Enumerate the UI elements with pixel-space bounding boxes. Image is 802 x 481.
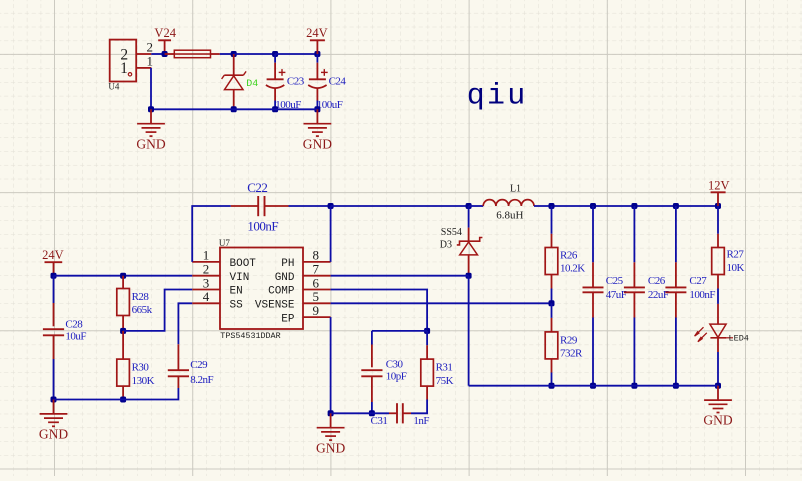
svg-text:C26: C26	[648, 275, 666, 287]
svg-text:1: 1	[120, 60, 128, 77]
capacitor C25	[583, 287, 604, 292]
svg-text:GND: GND	[703, 413, 732, 428]
junction node Vout L1	[549, 203, 555, 209]
value R29 732R	[560, 348, 583, 360]
junction node VSENSE	[549, 300, 555, 306]
label R30	[132, 362, 150, 374]
junction node D3 top	[466, 203, 472, 209]
svg-text:EN: EN	[230, 286, 243, 298]
label C23	[287, 75, 305, 87]
wire C27 bottom	[675, 292, 677, 385]
svg-text:12V: 12V	[708, 179, 730, 193]
label 12V	[708, 179, 730, 193]
value U7 TPS54531DDAR	[220, 331, 280, 341]
value C31 1nF	[413, 415, 429, 427]
label R26	[560, 250, 578, 262]
junction node R29 gnd	[549, 383, 555, 389]
junction node gnd left	[51, 397, 57, 403]
label R28	[132, 291, 150, 303]
svg-text:1: 1	[203, 248, 210, 263]
svg-text:C25: C25	[606, 275, 624, 287]
svg-text:SS: SS	[230, 300, 244, 312]
svg-text:D4: D4	[246, 79, 258, 90]
ground right	[703, 386, 732, 428]
value R26 10.2K	[560, 263, 585, 275]
wire R29 bottom	[551, 359, 553, 386]
svg-text:C23: C23	[287, 75, 305, 87]
capacitor C31	[389, 403, 411, 423]
ground top-right	[303, 109, 332, 151]
junction node fuse/D4	[231, 51, 237, 57]
svg-text:BOOT: BOOT	[230, 258, 257, 270]
junction node EP gnd	[328, 410, 334, 416]
wire VIN run	[54, 275, 193, 277]
label C25	[606, 275, 624, 287]
svg-text:GND: GND	[136, 136, 165, 151]
pin number 3	[203, 275, 210, 290]
pin name VSENSE	[255, 300, 295, 312]
svg-text:GND: GND	[275, 272, 295, 284]
svg-text:7: 7	[313, 262, 320, 277]
pin 7 GND of U7	[303, 275, 331, 277]
svg-text:10K: 10K	[727, 262, 745, 274]
label C22	[247, 180, 267, 195]
svg-text:1nF: 1nF	[413, 415, 429, 427]
resistor R31	[421, 359, 434, 386]
pin 5 VSENSE of U7	[303, 302, 331, 304]
wire R30 top pin	[122, 331, 124, 359]
junction node Vout C26	[631, 203, 637, 209]
pin number 1 of U4	[146, 53, 153, 68]
wire C30 top	[371, 331, 373, 367]
label C28	[65, 319, 83, 331]
junction node D4 bottom	[231, 106, 237, 112]
pin number 6	[313, 275, 320, 290]
svg-text:GND: GND	[303, 136, 332, 151]
wire R31 top pin	[426, 331, 428, 359]
svg-text:24V: 24V	[42, 248, 64, 262]
value L1 6.8uH	[496, 210, 523, 222]
svg-text:D3: D3	[440, 239, 452, 250]
capacitor C24	[308, 69, 328, 88]
svg-text:R26: R26	[560, 250, 578, 262]
pin number 9	[313, 303, 320, 318]
label R27	[727, 249, 745, 261]
wire C24 top	[316, 54, 318, 79]
pin number 8	[313, 248, 320, 263]
label R31	[436, 362, 453, 374]
label C30	[386, 359, 404, 371]
junction node C23 bottom	[272, 106, 278, 112]
svg-text:VIN: VIN	[230, 272, 250, 284]
svg-text:665k: 665k	[132, 304, 153, 316]
svg-text:L1: L1	[510, 184, 521, 195]
diode D3 SS54	[457, 238, 483, 276]
wire C26 bottom	[633, 292, 635, 385]
label 24V top	[306, 26, 328, 40]
svg-text:C27: C27	[689, 275, 707, 287]
svg-text:2: 2	[146, 40, 153, 55]
value R30 130K	[132, 375, 155, 387]
wire D4 node to C23 node	[234, 53, 275, 55]
svg-text:TPS54531DDAR: TPS54531DDAR	[220, 331, 280, 341]
wire SS run	[178, 303, 192, 370]
wire C23 bottom	[274, 89, 276, 110]
svg-text:2: 2	[203, 262, 210, 277]
pin number 4	[203, 289, 210, 304]
junction node R28 top	[120, 273, 126, 279]
svg-text:qiu: qiu	[467, 80, 528, 114]
wire R28 bottom pin	[122, 316, 124, 331]
junction node comp top	[424, 328, 430, 334]
value R31 75K	[436, 375, 454, 387]
label LED4	[729, 333, 749, 343]
svg-text:GND: GND	[316, 440, 345, 455]
wire EP run	[330, 317, 332, 413]
svg-text:R29: R29	[560, 335, 578, 347]
pin 1 BOOT of U7	[192, 261, 220, 263]
ground left	[39, 400, 68, 442]
wire D3 cathode	[468, 206, 470, 241]
capacitor C26	[624, 287, 645, 292]
power port 12V	[711, 192, 726, 206]
svg-text:22uF: 22uF	[648, 289, 669, 301]
wire C30 bottom	[371, 376, 373, 413]
wire V24 node to fuse	[165, 53, 175, 55]
wire C24 bottom	[316, 89, 318, 110]
svg-text:3: 3	[203, 275, 210, 290]
value C22 100nF	[247, 218, 278, 233]
svg-text:C24: C24	[329, 75, 347, 87]
svg-text:PH: PH	[281, 258, 294, 270]
resistor R28	[117, 289, 130, 316]
inductor L1	[483, 200, 534, 206]
wire EN run	[123, 290, 192, 331]
pin number 1	[203, 248, 210, 263]
svg-text:GND: GND	[39, 427, 68, 442]
pin number 2	[203, 262, 210, 277]
svg-text:COMP: COMP	[268, 286, 295, 298]
junction node Vout C25	[590, 203, 596, 209]
wire EP gnd rail	[331, 412, 372, 414]
wire COMP run	[331, 290, 428, 331]
wire bottom ground rail	[469, 385, 718, 387]
pin 8 PH of U7	[303, 261, 331, 263]
svg-text:4: 4	[203, 289, 210, 304]
pin name COMP	[268, 286, 295, 298]
wire fuse to D4 node	[220, 53, 234, 55]
capacitor C30	[361, 370, 382, 376]
label L1	[510, 184, 521, 195]
wire PH rail to D3	[331, 205, 469, 207]
value R28 665k	[132, 304, 153, 316]
junction node Vout R27	[715, 203, 721, 209]
value R27 10K	[727, 262, 745, 274]
junction node VIN left	[51, 273, 57, 279]
pin 2 of U4	[136, 53, 151, 55]
wire R26 bottom	[551, 275, 553, 304]
label C29	[190, 359, 208, 371]
svg-text:C28: C28	[65, 319, 83, 331]
value C23 100uF	[275, 99, 301, 111]
label D3	[440, 239, 452, 250]
value C25 47uF	[606, 289, 627, 301]
svg-text:10.2K: 10.2K	[560, 263, 585, 275]
wire R26 top	[551, 206, 553, 248]
wire C25 bottom	[592, 292, 594, 385]
svg-text:100nF: 100nF	[247, 218, 278, 233]
junction node U4 gnd	[148, 106, 154, 112]
pin name PH	[281, 258, 294, 270]
pin name BOOT	[230, 258, 257, 270]
label U4	[108, 82, 119, 92]
wire comp top rail	[372, 330, 427, 332]
label C26	[648, 275, 666, 287]
svg-text:6: 6	[313, 275, 320, 290]
pin number 7	[313, 262, 320, 277]
value C29 8.2nF	[190, 374, 213, 386]
pin 1 of U4	[136, 67, 151, 69]
label U7	[219, 238, 230, 248]
label V24	[154, 26, 176, 40]
value C26 22uF	[648, 289, 669, 301]
wire D3 to ground rail	[468, 276, 470, 386]
svg-text:9: 9	[313, 303, 320, 318]
svg-text:C30: C30	[386, 359, 404, 371]
pin 6 COMP of U7	[303, 289, 331, 291]
svg-text:U4: U4	[108, 82, 119, 92]
label C31	[371, 415, 388, 427]
pin 2 VIN of U7	[192, 275, 220, 277]
wire PH node up from pin8	[330, 206, 332, 262]
power port 24V top	[310, 40, 325, 54]
pin name EN	[230, 286, 243, 298]
svg-text:10uF: 10uF	[65, 331, 86, 343]
svg-text:EP: EP	[281, 313, 295, 325]
power port 24V left	[45, 262, 63, 276]
svg-text:C29: C29	[190, 359, 208, 371]
capacitor C27	[665, 287, 686, 292]
junction node PH	[328, 203, 334, 209]
pin name GND	[275, 272, 295, 284]
wire R27 top	[717, 206, 719, 248]
svg-text:24V: 24V	[306, 26, 328, 40]
svg-text:732R: 732R	[560, 348, 583, 360]
wire C22 to PH node	[289, 205, 331, 207]
svg-text:C22: C22	[247, 180, 267, 195]
wire C25 top	[592, 206, 594, 287]
junction node LED4 gnd	[715, 383, 721, 389]
wire top ground rail	[151, 108, 317, 110]
pin name VIN	[230, 272, 250, 284]
svg-text:8: 8	[313, 248, 320, 263]
wire R28 top pin	[122, 276, 124, 289]
wire LED4 to gnd	[717, 352, 719, 386]
junction node C30/C31	[369, 410, 375, 416]
text qiu	[467, 80, 528, 114]
value C28 10uF	[65, 331, 86, 343]
pin name SS	[230, 300, 244, 312]
svg-text:100uF: 100uF	[317, 99, 343, 111]
svg-text:U7: U7	[219, 238, 230, 248]
svg-text:6.8uH: 6.8uH	[496, 210, 523, 222]
diode LED4	[695, 304, 733, 352]
svg-text:C31: C31	[371, 415, 388, 427]
pin 4 SS of U7	[192, 302, 220, 304]
connector U4	[110, 40, 137, 82]
wire pin2 to V24 node	[151, 53, 164, 55]
ground top-left	[136, 109, 165, 151]
pin number 5	[313, 289, 320, 304]
wire D3 node to L1	[469, 205, 484, 207]
junction node C25 gnd	[590, 383, 596, 389]
wire R30 bottom pin	[122, 386, 124, 399]
capacitor C22	[231, 196, 289, 216]
wire C23 top	[274, 54, 276, 79]
svg-text:75K: 75K	[436, 375, 454, 387]
value C30 10pF	[386, 370, 407, 382]
junction node C26 gnd	[631, 383, 637, 389]
ground middle	[316, 413, 345, 455]
resistor R29	[545, 332, 558, 359]
junction node 24V top	[314, 51, 320, 57]
svg-text:5: 5	[313, 289, 320, 304]
svg-text:LED4: LED4	[729, 333, 749, 343]
resistor R30	[117, 359, 130, 386]
value C24 100uF	[317, 99, 343, 111]
pin 3 EN of U7	[192, 289, 220, 291]
wire C23 node to 24V node	[275, 53, 317, 55]
svg-text:1: 1	[146, 53, 153, 68]
capacitor C23	[266, 69, 286, 88]
wire C31 left	[372, 412, 389, 414]
svg-text:8.2nF: 8.2nF	[190, 374, 213, 386]
wire VSENSE run	[331, 302, 552, 304]
wire R29 top	[551, 303, 553, 332]
label C27	[689, 275, 707, 287]
wire L1 to 12V rail	[534, 205, 718, 207]
svg-text:100nF: 100nF	[689, 289, 715, 301]
svg-text:SS54: SS54	[441, 227, 462, 238]
value C27 100nF	[689, 289, 715, 301]
junction node D3 anode GND	[466, 273, 472, 279]
capacitor C29	[168, 370, 189, 376]
wire R27 bottom	[717, 275, 719, 304]
wire GND pin7 run	[331, 275, 469, 277]
pin 9 EP of U7	[303, 316, 331, 318]
op-amp U7 TPS54531DDAR body	[220, 248, 303, 330]
wire C28 top	[53, 276, 55, 327]
wire C29 bottom	[54, 376, 179, 399]
junction node C24 bottom	[314, 106, 320, 112]
wire BOOT loop	[192, 206, 231, 262]
power port V24	[158, 40, 171, 54]
svg-text:R30: R30	[132, 362, 150, 374]
svg-text:47uF: 47uF	[606, 289, 627, 301]
wire R31 bottom pin	[411, 386, 427, 413]
svg-text:10pF: 10pF	[386, 370, 407, 382]
label C24	[329, 75, 347, 87]
junction V24 node	[162, 51, 168, 57]
label D4	[246, 79, 258, 90]
resistor R27	[712, 248, 725, 275]
pin number 2 of U4	[146, 40, 153, 55]
svg-text:V24: V24	[154, 26, 176, 40]
capacitor C28	[43, 329, 64, 335]
label R29	[560, 335, 578, 347]
svg-text:R28: R28	[132, 291, 150, 303]
label 24V left	[42, 248, 64, 262]
junction node Vout C27	[673, 203, 679, 209]
fuse F1	[174, 50, 220, 58]
junction node C23 top	[272, 51, 278, 57]
wire C27 top	[675, 206, 677, 287]
junction node R30 bottom	[120, 397, 126, 403]
junction node R28/R30	[120, 328, 126, 334]
svg-text:R27: R27	[727, 249, 745, 261]
junction node C27 gnd	[673, 383, 679, 389]
pin name EP	[281, 313, 295, 325]
wire pin1 down	[150, 68, 152, 109]
wire C28 bottom	[53, 335, 55, 399]
resistor R26	[545, 248, 558, 275]
svg-text:R31: R31	[436, 362, 453, 374]
svg-text:VSENSE: VSENSE	[255, 300, 295, 312]
svg-text:130K: 130K	[132, 375, 155, 387]
label SS54	[441, 227, 462, 238]
wire C26 top	[633, 206, 635, 287]
zener diode D4	[222, 54, 247, 109]
